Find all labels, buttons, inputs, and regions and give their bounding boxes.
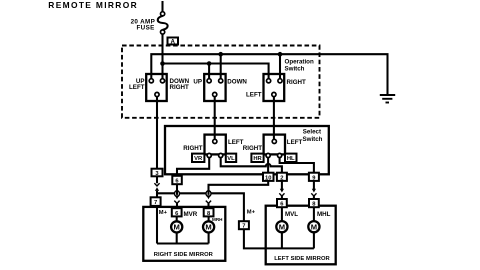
svg-text:RIGHT: RIGHT [287, 79, 306, 86]
node junction fuse-bus2 [160, 61, 165, 66]
svg-text:MVR: MVR [184, 211, 198, 218]
node junction bus1-sw2 [218, 52, 223, 57]
hop oval right [206, 191, 211, 197]
ground [380, 95, 395, 103]
tag RSM 6 [172, 208, 182, 216]
svg-text:Switch: Switch [303, 136, 323, 143]
switch S2 up/down [193, 74, 247, 101]
svg-text:MRH: MRH [212, 217, 223, 222]
svg-text:2: 2 [280, 175, 283, 181]
wire VR to pin6 [177, 157, 209, 176]
svg-text:LEFT: LEFT [246, 92, 262, 99]
svg-text:Switch: Switch [285, 66, 305, 73]
svg-text:7: 7 [154, 200, 157, 206]
svg-text:M: M [311, 222, 317, 231]
svg-text:VL: VL [227, 156, 235, 162]
wire LSM tag8 to motor [313, 207, 315, 221]
switch S3 left/right [246, 74, 306, 101]
node junction bus1-sw3 [278, 52, 283, 57]
wire pin2 to LSM 6 [281, 181, 283, 189]
select contact U1 vertical [183, 135, 243, 158]
wire bus1 to switch3 right [279, 54, 281, 81]
svg-text:VR: VR [194, 156, 203, 162]
svg-text:M: M [205, 223, 211, 232]
motor MHL [308, 221, 319, 232]
tag HL [285, 154, 297, 162]
svg-text:M+: M+ [159, 210, 168, 216]
wire RSM tag6 to motor [176, 216, 178, 221]
svg-text:Select: Select [303, 128, 321, 135]
wire MVL bottom [281, 232, 283, 248]
wire pin7 to LSM [244, 229, 314, 248]
wire VL to pin2 (hop over HR wire) [221, 157, 282, 173]
svg-text:10: 10 [265, 175, 271, 181]
wire switch1 bottom to pin3 [156, 97, 158, 184]
wire switch3 bottom to select [273, 97, 275, 140]
svg-text:7: 7 [242, 224, 245, 230]
select switch box [165, 126, 329, 174]
wire pin6 down [176, 184, 178, 195]
svg-text:RIGHT: RIGHT [243, 145, 262, 152]
wire from top to fuse [161, 1, 163, 12]
wire pin9 to LSM 8 [313, 181, 315, 189]
svg-text:A: A [170, 38, 175, 45]
wire HL to pin9 [280, 157, 314, 173]
tag pin 10 [263, 173, 274, 181]
wire bus2 [163, 64, 269, 81]
wire MVR bottom [176, 233, 178, 244]
svg-text:UP: UP [193, 79, 202, 86]
tag pin 6 [172, 176, 182, 184]
svg-text:RIGHT SIDE MIRROR: RIGHT SIDE MIRROR [154, 252, 214, 258]
tag HR [251, 154, 263, 162]
motor MVR [171, 221, 182, 232]
wire HR to pin10 [267, 157, 269, 173]
connector arrow into RSM 6 [176, 191, 178, 195]
wire switch2 bottom to select [214, 97, 216, 140]
svg-text:RIGHT: RIGHT [170, 84, 189, 91]
svg-text:FUSE: FUSE [136, 24, 154, 31]
motor MVL [276, 221, 287, 232]
wire MHL bottom [313, 232, 315, 248]
connector A tag [168, 38, 179, 46]
tag pin 2 [277, 173, 287, 181]
wire pin3 to M+ [156, 191, 158, 244]
svg-text:M: M [279, 222, 285, 231]
tag pin 7 right mirror [151, 197, 161, 206]
tag pin 3 [152, 169, 163, 177]
tag RSM 8 [204, 208, 214, 216]
connector pin3 arrow [155, 187, 159, 191]
wire RSM common [157, 242, 209, 244]
tag VL [226, 154, 236, 162]
svg-text:MHL: MHL [317, 211, 331, 218]
left side mirror box [266, 206, 336, 265]
svg-text:LEFT: LEFT [228, 139, 244, 146]
hop oval left [175, 191, 180, 197]
connector arrow into RSM 8 [207, 191, 209, 195]
wire pin10 to mirror pin8 [209, 181, 269, 195]
svg-text:Operation: Operation [285, 59, 314, 66]
wire bus2 to switch2 left [208, 64, 210, 81]
tag pin 7 left mirror [239, 221, 249, 229]
svg-text:HL: HL [287, 156, 295, 162]
operation switch dashed box [122, 46, 320, 118]
wire MRH bottom [208, 233, 210, 244]
svg-text:M: M [174, 223, 180, 232]
right side mirror box [143, 207, 225, 261]
motor MRH [203, 221, 214, 232]
wire bus1 to ground [151, 54, 387, 94]
wire LSM tag6 to motor [281, 207, 283, 221]
tag VR [192, 154, 204, 162]
switch S1 up/down-left/right [129, 74, 190, 101]
svg-text:LEFT: LEFT [287, 139, 303, 146]
wire RSM tag8 to motor [208, 216, 210, 221]
connector pin3 chevron [154, 183, 159, 186]
svg-text:MVL: MVL [285, 211, 298, 218]
svg-text:M+: M+ [247, 210, 256, 216]
fuse F1 20 AMP [131, 12, 168, 34]
node junction bus2-sw2 [207, 61, 212, 66]
tag LSM 6 [277, 199, 287, 207]
select contact U2 horizontal [243, 135, 303, 158]
tag pin 9 [309, 173, 319, 181]
svg-text:LEFT: LEFT [129, 84, 145, 91]
svg-text:HR: HR [253, 156, 262, 162]
wire fuse to switch [161, 34, 163, 79]
svg-text:DOWN: DOWN [227, 79, 247, 86]
svg-text:LEFT SIDE MIRROR: LEFT SIDE MIRROR [274, 256, 330, 262]
svg-text:RIGHT: RIGHT [183, 145, 202, 152]
wire M+ branch to left mirror pin7 [157, 193, 244, 221]
wire bus1 to switch2 right [220, 54, 222, 81]
tag LSM 8 [309, 199, 319, 207]
svg-text:REMOTE MIRROR: REMOTE MIRROR [48, 0, 138, 10]
